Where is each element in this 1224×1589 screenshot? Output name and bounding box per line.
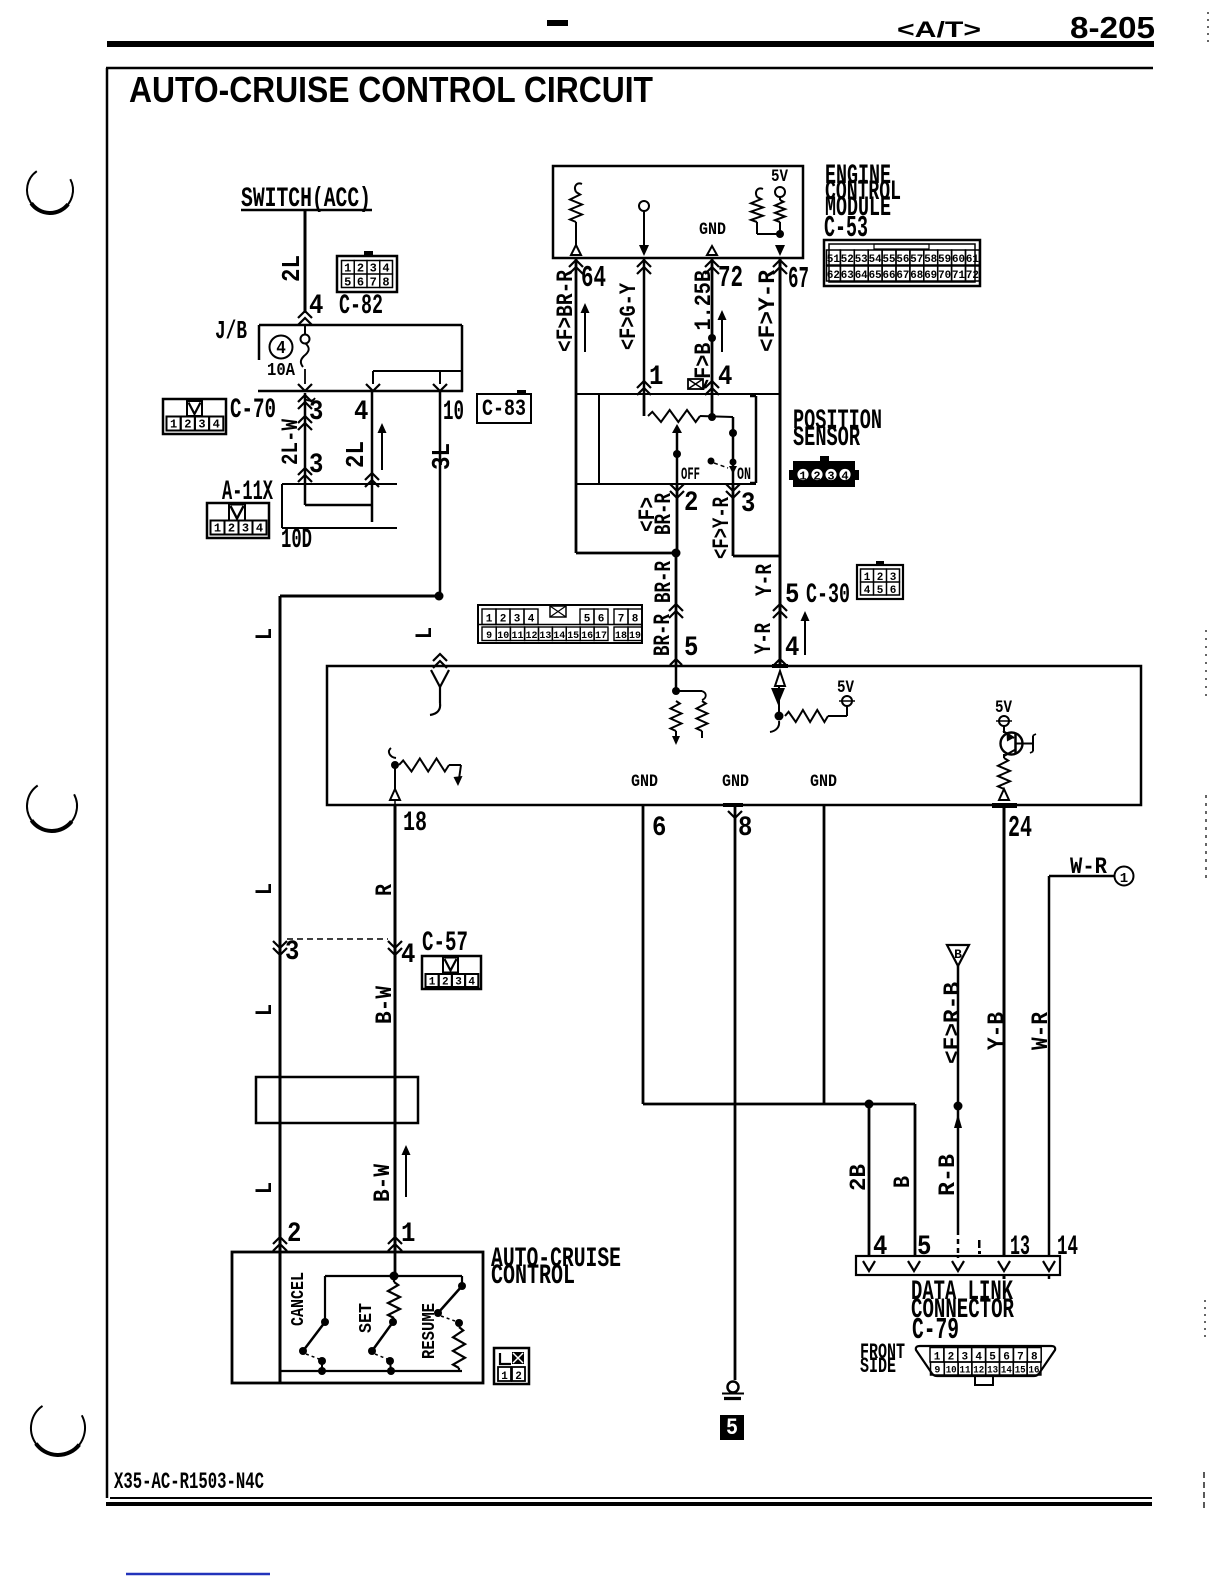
svg-text:15: 15	[1015, 1366, 1026, 1377]
svg-text:11: 11	[960, 1366, 971, 1377]
svg-text:68: 68	[910, 270, 923, 282]
svg-text:1: 1	[649, 360, 663, 392]
svg-text:C-82: C-82	[339, 289, 383, 321]
svg-text:14: 14	[1001, 1366, 1012, 1377]
svg-text:8-205: 8-205	[1070, 10, 1155, 45]
svg-text:4: 4	[382, 262, 389, 276]
svg-text:C-83: C-83	[482, 396, 526, 423]
svg-text:72: 72	[718, 262, 743, 295]
svg-text:Y-R: Y-R	[751, 623, 778, 654]
svg-text:63: 63	[841, 270, 854, 282]
svg-text:19: 19	[629, 631, 641, 642]
svg-text:8: 8	[738, 811, 752, 843]
svg-text:W-R: W-R	[1070, 854, 1107, 881]
svg-text:9: 9	[934, 1366, 940, 1377]
svg-text:<F>R-B: <F>R-B	[940, 982, 967, 1064]
svg-text:L: L	[252, 1182, 279, 1194]
svg-text:2: 2	[515, 1371, 522, 1383]
svg-text:2: 2	[500, 614, 507, 626]
svg-text:2: 2	[228, 522, 235, 536]
svg-text:7: 7	[618, 614, 625, 626]
svg-text:55: 55	[883, 254, 896, 266]
svg-text:1: 1	[214, 522, 221, 536]
svg-text:17: 17	[595, 631, 607, 642]
svg-text:3L: 3L	[429, 443, 458, 470]
svg-text:<F>Y-R: <F>Y-R	[709, 497, 736, 559]
svg-text:3: 3	[242, 522, 249, 536]
svg-text:62: 62	[827, 270, 840, 282]
svg-text:67: 67	[896, 270, 909, 282]
svg-text:4: 4	[528, 614, 535, 626]
svg-text:1: 1	[344, 262, 351, 276]
svg-text:54: 54	[869, 254, 882, 266]
svg-text:6: 6	[598, 614, 605, 626]
svg-text:3: 3	[370, 262, 377, 276]
svg-text:<F>B 1.25B: <F>B 1.25B	[691, 270, 718, 391]
svg-text:R: R	[372, 884, 399, 896]
svg-text:AUTO-CRUISE CONTROL CIRCUIT: AUTO-CRUISE CONTROL CIRCUIT	[129, 69, 653, 110]
svg-text:L: L	[252, 628, 279, 640]
svg-text:4: 4	[864, 585, 871, 597]
svg-text:BR-R: BR-R	[650, 614, 677, 656]
svg-text:Y-B: Y-B	[984, 1012, 1011, 1050]
svg-text:GND: GND	[631, 771, 658, 791]
svg-text:3: 3	[285, 935, 299, 967]
svg-text:16: 16	[581, 631, 593, 642]
svg-text:4: 4	[841, 470, 848, 484]
svg-text:8: 8	[632, 614, 639, 626]
svg-text:1: 1	[170, 418, 177, 432]
svg-text:18: 18	[615, 631, 627, 642]
svg-text:B: B	[890, 1176, 917, 1188]
svg-text:GND: GND	[699, 219, 726, 239]
svg-text:2B: 2B	[846, 1164, 873, 1191]
svg-text:57: 57	[910, 254, 923, 266]
svg-text:72: 72	[966, 270, 979, 282]
svg-text:52: 52	[841, 254, 854, 266]
svg-text:5V: 5V	[837, 677, 854, 697]
svg-text:OFF: OFF	[681, 464, 700, 484]
svg-text:CANCEL: CANCEL	[289, 1272, 309, 1326]
svg-text:4: 4	[309, 289, 323, 321]
svg-text:L: L	[252, 883, 279, 895]
svg-text:4: 4	[354, 395, 368, 427]
svg-text:2: 2	[442, 977, 449, 989]
svg-text:51: 51	[827, 254, 840, 266]
svg-text:4: 4	[276, 339, 286, 359]
svg-text:66: 66	[883, 270, 896, 282]
svg-text:4: 4	[785, 631, 799, 663]
svg-text:<F>Y-R: <F>Y-R	[755, 270, 782, 352]
svg-text:13: 13	[987, 1366, 998, 1377]
svg-text:11: 11	[512, 631, 524, 642]
svg-text:14: 14	[553, 631, 565, 642]
svg-text:RESUME: RESUME	[420, 1303, 440, 1359]
svg-text:13: 13	[539, 631, 551, 642]
svg-text:4: 4	[468, 977, 475, 989]
svg-text:4: 4	[256, 522, 263, 536]
svg-text:C-79: C-79	[912, 1314, 959, 1347]
svg-text:53: 53	[855, 254, 868, 266]
svg-text:13: 13	[1010, 1230, 1030, 1262]
svg-text:64: 64	[581, 262, 606, 295]
svg-text:GND: GND	[810, 771, 837, 791]
svg-text:1: 1	[401, 1217, 415, 1249]
svg-text:60: 60	[952, 254, 965, 266]
svg-text:3: 3	[827, 470, 834, 484]
svg-text:2L: 2L	[279, 255, 308, 282]
svg-text:6: 6	[652, 811, 666, 843]
svg-text:B: B	[954, 947, 962, 962]
svg-text:BR-R: BR-R	[651, 561, 678, 603]
svg-text:6: 6	[357, 276, 364, 290]
svg-text:10: 10	[497, 631, 509, 642]
svg-text:4: 4	[213, 418, 220, 432]
svg-text:L: L	[412, 627, 439, 639]
svg-text:2: 2	[184, 418, 191, 432]
svg-text:<A/T>: <A/T>	[897, 17, 981, 42]
svg-text:2: 2	[813, 470, 820, 484]
svg-text:1: 1	[799, 470, 806, 484]
svg-text:65: 65	[869, 270, 882, 282]
svg-text:5: 5	[584, 614, 591, 626]
svg-text:C-57: C-57	[422, 926, 468, 958]
svg-text:16: 16	[1029, 1366, 1040, 1377]
svg-text:4: 4	[873, 1230, 887, 1262]
svg-text:5: 5	[877, 585, 884, 597]
svg-text:5V: 5V	[771, 166, 788, 186]
svg-text:10D: 10D	[281, 523, 312, 555]
svg-text:4: 4	[718, 360, 732, 392]
svg-text:67: 67	[788, 263, 809, 296]
svg-text:3: 3	[741, 487, 755, 519]
svg-text:18: 18	[403, 806, 427, 838]
svg-text:1: 1	[429, 977, 436, 989]
svg-text:GND: GND	[722, 771, 749, 791]
svg-text:2: 2	[357, 262, 364, 276]
svg-text:9: 9	[486, 631, 492, 642]
svg-text:61: 61	[966, 254, 979, 266]
svg-text:B-W: B-W	[372, 986, 399, 1024]
svg-text:24: 24	[1008, 812, 1032, 845]
svg-text:BR-R: BR-R	[651, 493, 678, 535]
svg-text:3: 3	[514, 614, 521, 626]
svg-text:6: 6	[890, 585, 897, 597]
svg-text:C-30: C-30	[806, 578, 850, 610]
svg-text:59: 59	[938, 254, 951, 266]
svg-text:SIDE: SIDE	[860, 1355, 896, 1380]
svg-text:15: 15	[567, 631, 579, 642]
svg-text:1: 1	[501, 1371, 508, 1383]
svg-text:58: 58	[924, 254, 937, 266]
svg-text:12: 12	[973, 1366, 984, 1377]
svg-text:1: 1	[486, 614, 493, 626]
svg-text:5: 5	[684, 631, 698, 663]
svg-text:1: 1	[1120, 871, 1128, 887]
svg-text:X35-AC-R1503-N4C: X35-AC-R1503-N4C	[114, 1469, 264, 1496]
svg-text:69: 69	[924, 270, 937, 282]
svg-text:3: 3	[309, 395, 323, 427]
svg-text:7: 7	[370, 276, 377, 290]
svg-text:3: 3	[198, 418, 205, 432]
svg-text:Y-R: Y-R	[752, 564, 779, 596]
svg-text:5: 5	[917, 1230, 931, 1262]
svg-text:2L: 2L	[343, 441, 372, 468]
svg-text:SET: SET	[357, 1303, 377, 1333]
svg-text:8: 8	[382, 276, 389, 290]
svg-text:ON: ON	[737, 464, 751, 484]
svg-text:<F>G-Y: <F>G-Y	[616, 283, 643, 350]
svg-text:B-W: B-W	[370, 1164, 397, 1202]
svg-text:SENSOR: SENSOR	[793, 421, 860, 453]
svg-text:14: 14	[1057, 1230, 1078, 1262]
svg-text:5V: 5V	[995, 697, 1012, 717]
svg-text:2: 2	[287, 1217, 301, 1249]
svg-text:10: 10	[946, 1366, 957, 1377]
svg-text:71: 71	[952, 270, 965, 282]
svg-text:10A: 10A	[267, 361, 296, 381]
svg-text:12: 12	[526, 631, 538, 642]
svg-text:64: 64	[855, 270, 868, 282]
svg-text:3: 3	[309, 448, 323, 480]
svg-text:J/B: J/B	[215, 318, 247, 347]
svg-text:2L-W: 2L-W	[278, 419, 305, 465]
svg-text:CONTROL: CONTROL	[491, 1259, 575, 1291]
svg-text:2: 2	[684, 486, 698, 518]
svg-text:W-R: W-R	[1028, 1012, 1055, 1050]
svg-text:R-B: R-B	[935, 1154, 962, 1196]
svg-text:10: 10	[443, 395, 464, 427]
svg-text:70: 70	[938, 270, 951, 282]
svg-text:4: 4	[401, 938, 415, 970]
svg-text:L: L	[252, 1004, 279, 1016]
svg-text:3: 3	[455, 977, 462, 989]
svg-text:5: 5	[726, 1415, 738, 1442]
svg-text:C-70: C-70	[230, 393, 276, 425]
svg-text:5: 5	[344, 276, 351, 290]
svg-text:56: 56	[896, 254, 909, 266]
svg-text:5: 5	[785, 578, 799, 610]
